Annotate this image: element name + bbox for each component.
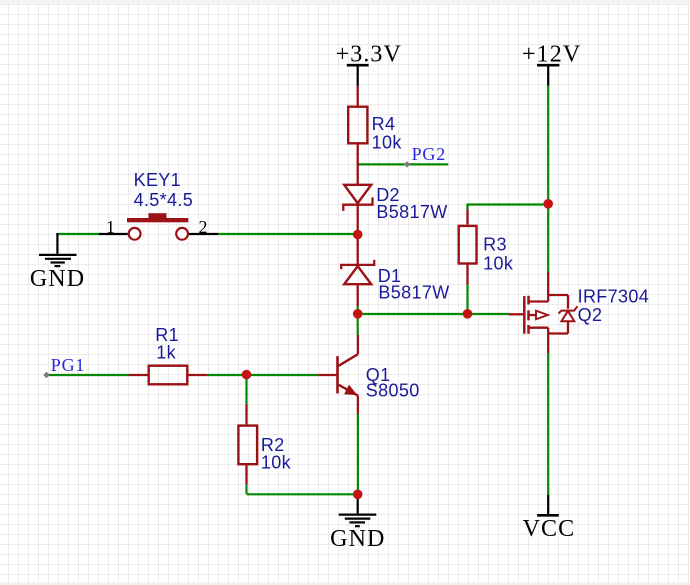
svg-text:+12V: +12V xyxy=(522,41,581,67)
svg-text:GND: GND xyxy=(330,526,385,552)
svg-text:KEY1: KEY1 xyxy=(134,170,181,190)
svg-text:B5817W: B5817W xyxy=(378,283,449,303)
svg-text:1: 1 xyxy=(106,217,115,237)
svg-text:PG1: PG1 xyxy=(51,355,85,375)
svg-text:S8050: S8050 xyxy=(366,381,420,401)
svg-text:2: 2 xyxy=(199,217,208,237)
svg-text:R3: R3 xyxy=(483,235,507,255)
svg-text:IRF7304: IRF7304 xyxy=(578,286,650,306)
svg-text:R4: R4 xyxy=(372,114,396,134)
svg-text:Q2: Q2 xyxy=(578,305,603,325)
svg-text:GND: GND xyxy=(30,266,85,292)
svg-text:10k: 10k xyxy=(372,132,403,152)
svg-text:10k: 10k xyxy=(261,453,292,473)
svg-text:4.5*4.5: 4.5*4.5 xyxy=(134,190,194,210)
svg-text:10k: 10k xyxy=(483,254,514,274)
svg-text:1k: 1k xyxy=(156,342,176,362)
svg-text:+3.3V: +3.3V xyxy=(336,41,402,67)
svg-text:B5817W: B5817W xyxy=(376,202,447,222)
svg-text:PG2: PG2 xyxy=(412,144,446,164)
svg-text:VCC: VCC xyxy=(523,516,576,542)
